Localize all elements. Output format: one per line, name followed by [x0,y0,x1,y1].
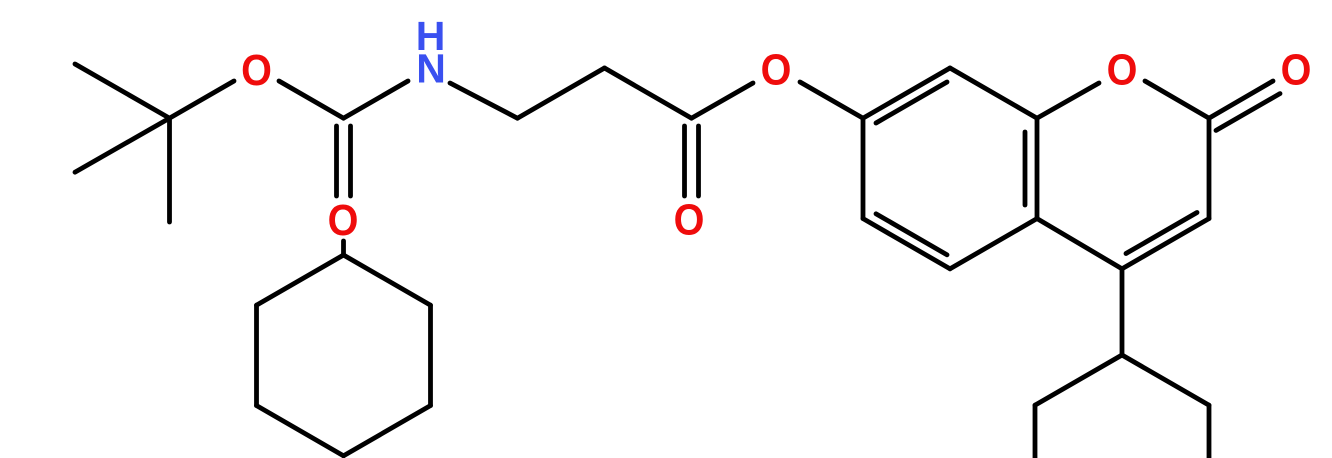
wire tBu methyl up-left [75,64,170,118]
svg-text:O: O [1107,46,1138,95]
cyclohexyl ring bond 2 left [254,305,259,405]
wire V1 to V2 [518,68,605,118]
wire carbamate C to N [344,81,409,118]
svg-text:O: O [674,196,705,245]
cyclohexyl ring bond 3 bottom-left clipped [257,406,344,456]
wire C2=O6 double bond line 2 [1216,94,1280,131]
wire ester C=O4 double bond line 1 [682,126,687,196]
cyclohexyl ring bond 5 right [428,305,433,405]
cyclohexyl ring bond 1 top-left [257,255,344,305]
wire O5 to C2 [1145,81,1209,118]
benzo ring bond C7-C8 [863,68,950,118]
svg-text:O: O [1281,46,1312,95]
wire tBu methyl down-left [75,118,170,172]
wire C2=O6 double bond line 1 [1209,81,1273,118]
wire carbamate C=O2 double bond line 1 [334,126,339,196]
wire tBu C to O1 [170,81,235,118]
wire O2 to cyclohexyl ring [341,241,346,255]
wire O1 to carbamate C [279,81,344,118]
benzo ring bond C4a-C5 [950,219,1037,269]
benzo inner double C7=C8 [876,82,947,123]
wire ester C=O4 double bond line 2 [696,126,701,196]
lower ring bond top-right [1122,355,1209,405]
wire V3 to O3 [692,83,754,118]
lower ring bond top-left [1035,355,1122,405]
svg-text:H: H [416,13,446,59]
benzo ring bond C6-C7 [861,118,866,218]
wire V2 to V3 [605,68,692,118]
svg-text:O: O [761,46,792,95]
wire tBu methyl down [167,118,172,222]
benzo ring bond C8a-C4a [1035,118,1040,218]
wire carbamate C=O2 double bond line 2 [348,126,353,196]
benzo inner double C8a=C4a [1023,132,1028,205]
pyranone bond C4-C4a [1037,219,1122,269]
svg-text:O: O [241,46,272,95]
benzo inner double C5=C6 [876,214,947,255]
wire O3 to coumarin C7 [800,82,863,118]
wire N to chain C V1 [450,83,518,118]
wire C4 to lower ring C1pp [1120,269,1125,355]
wire C8a to O5 [1037,83,1099,118]
benzo ring bond C8-C8a [950,68,1037,118]
cyclohexyl ring bond 4 bottom-right clipped [344,406,431,456]
cyclohexyl ring bond 6 top-right [344,255,431,305]
svg-text:O: O [328,196,359,245]
pyranone double C3=C4 line 2 [1126,213,1197,254]
pyranone bond C2-C3 [1207,118,1212,218]
benzo ring bond C5-C6 [863,219,950,269]
lower ring bond right clipped [1207,405,1212,458]
lower ring bond left clipped [1033,405,1038,458]
pyranone double C3=C4 line 1 [1122,219,1209,269]
